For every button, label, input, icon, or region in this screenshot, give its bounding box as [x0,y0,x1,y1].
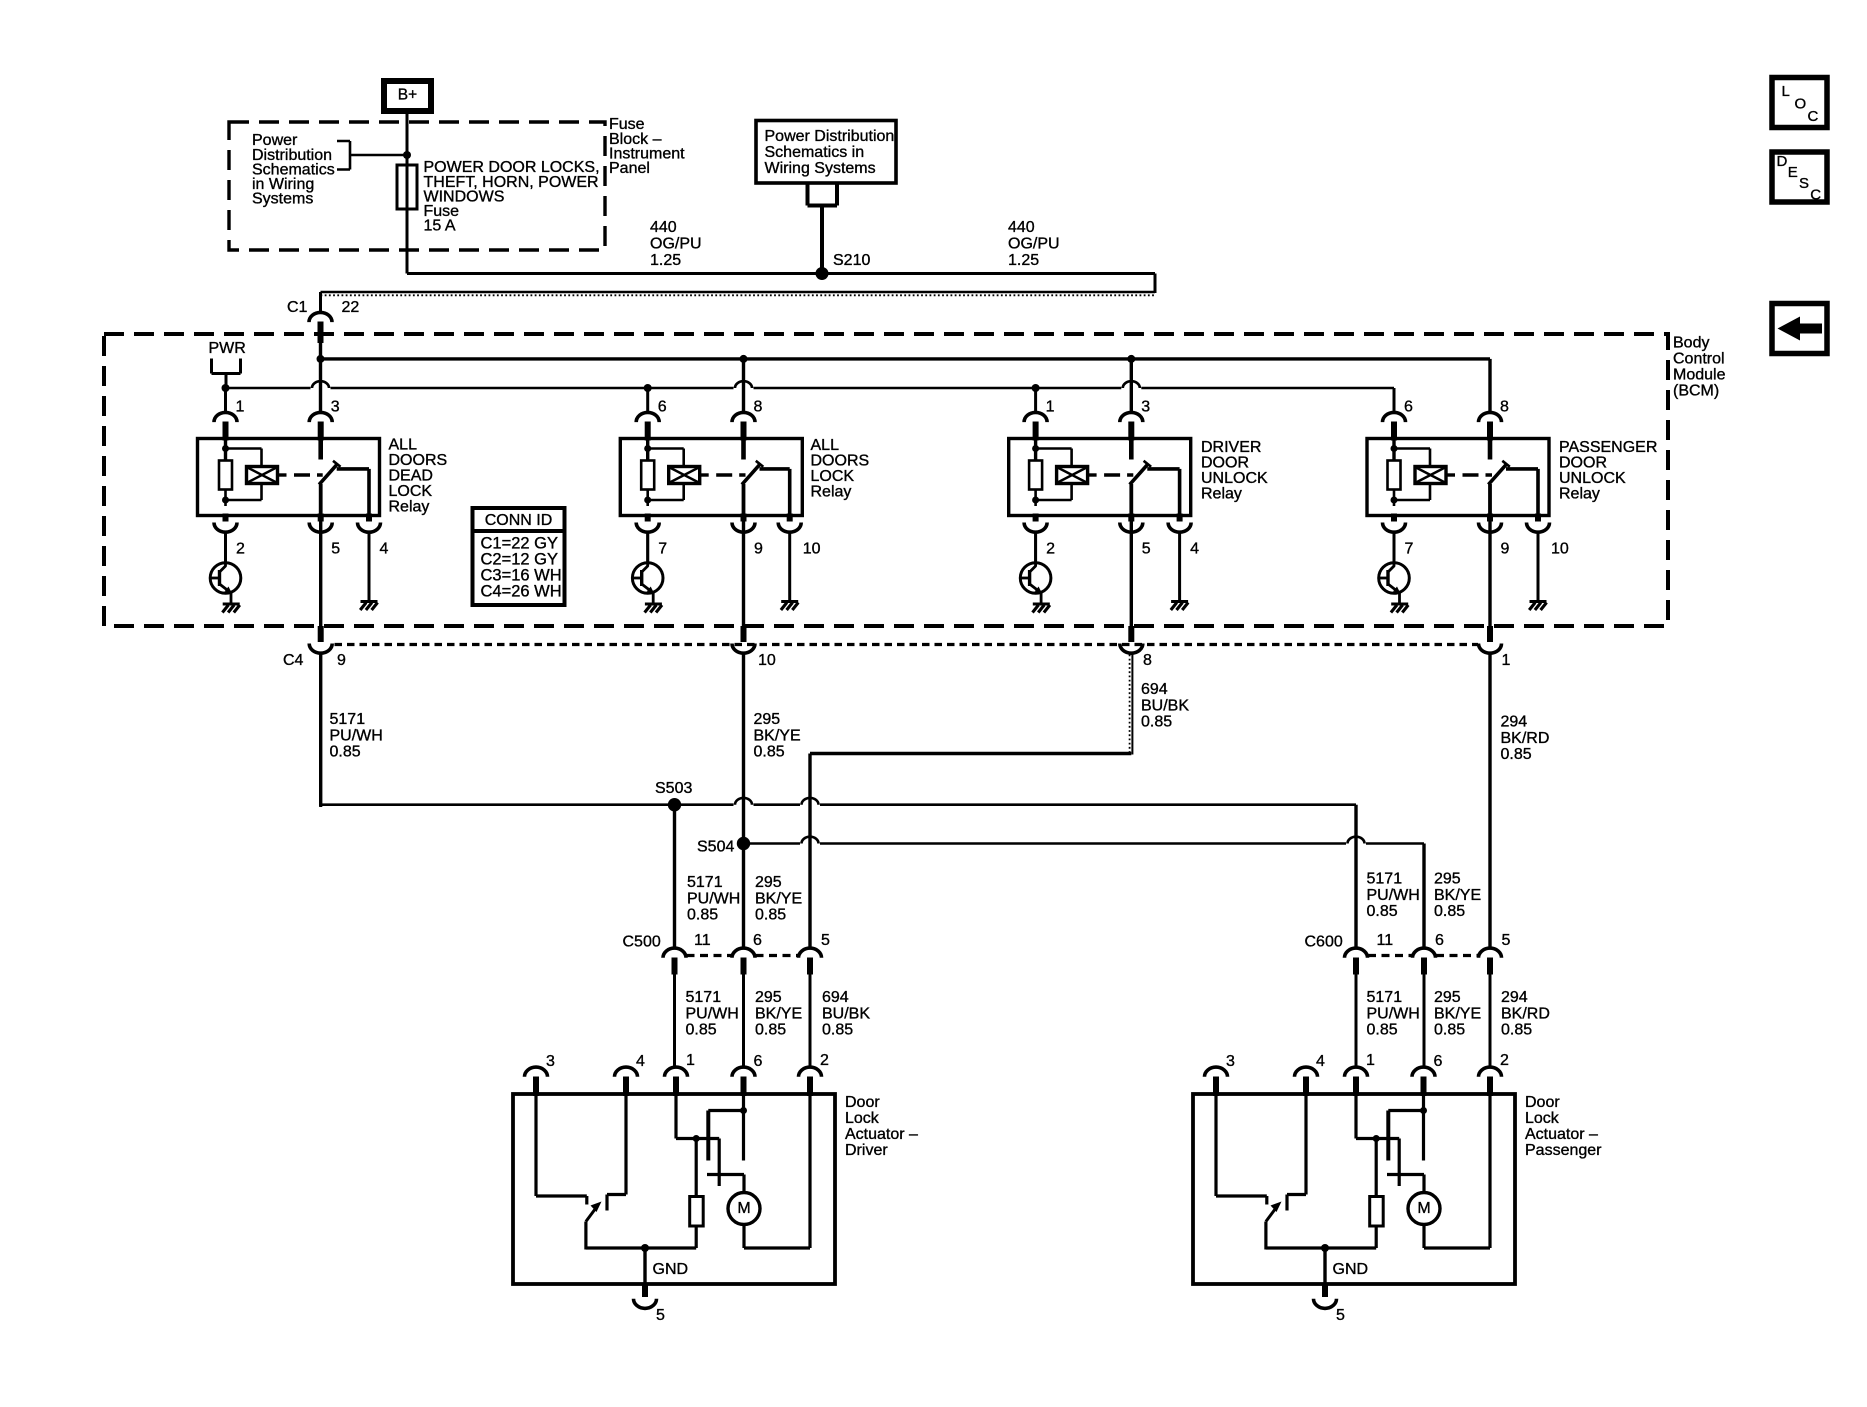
relay K3 DRIVER DOOR UNLOCK coil loop top wire [1036,447,1072,450]
resistor inside relay K3 DRIVER DOOR UNLOCK [1029,461,1042,490]
door lock actuator Passenger GND pin stub [1322,1284,1328,1297]
lower bus hop over relay3 pin3 wire [1123,381,1140,388]
relay K2 ALL DOORS LOCK pin 8 stub [741,422,747,441]
door lock actuator Driver switch blade with arrow [586,1202,602,1222]
relay K3 DRIVER DOOR UNLOCK bottom pin 4 connector [1168,523,1191,533]
relay K4 PASSENGER DOOR UNLOCK coil armature stub [1446,473,1455,476]
wire 440 OG/PU main run [407,272,1155,275]
relay K4 PASSENGER DOOR UNLOCK node coil top [1391,445,1398,452]
ground below Q3 [1033,604,1050,613]
door lock actuator Driver pin2 internal wire [808,1094,811,1248]
relay K4 PASSENGER DOOR UNLOCK bottom pin 9 connector [1479,523,1502,533]
door lock actuator Passenger pin4 contact arm [1287,1193,1306,1196]
svg-text:GND: GND [653,1261,689,1278]
back arrow navigation box [1772,304,1827,354]
relay K2 ALL DOORS LOCK bottom pin 10 connector [778,523,801,533]
relay K3 DRIVER DOOR UNLOCK contact output drop [1178,469,1182,516]
relay K1 ALL DOORS DEAD LOCK node coil bottom [222,497,229,504]
relay K4 PASSENGER DOOR UNLOCK coil loop right top wire [1429,449,1432,467]
door lock actuator Passenger resistor feed wire [1375,1139,1378,1197]
svg-text:11: 11 [694,932,711,949]
node lower bus / relay2 pin 6 tee [644,384,652,392]
wire relay NC pin to ground [788,533,791,602]
door lock actuator Passenger pin 6 connector [1412,1067,1435,1077]
S503 run hop over 694 wire [802,798,819,805]
ground (relay NC contact) [360,602,377,611]
svg-text:6: 6 [754,1053,763,1070]
wire 5171 PU/WH from C4-9 [319,655,322,807]
relay K2 ALL DOORS LOCK switch pole wire [742,484,746,516]
ground (relay NC contact) [1529,602,1546,611]
door lock actuator Passenger pin 4 connector [1295,1067,1318,1077]
svg-text:4: 4 [1190,541,1199,558]
relay K2 ALL DOORS LOCK switch blade [742,464,760,485]
relay K1 ALL DOORS DEAD LOCK bottom pin 2 connector [214,523,237,533]
svg-text:C1: C1 [287,299,308,316]
relay K4 PASSENGER DOOR UNLOCK top pin 8 connector [1479,412,1502,422]
node C1 wire / upper bus tee [317,355,325,363]
wire B+ feed down [406,114,409,274]
door lock actuator Passenger pin 1 connector [1345,1067,1368,1077]
relay K3 DRIVER DOOR UNLOCK coil armature stub [1088,473,1097,476]
door lock actuator Passenger motor contact bar [1387,1173,1424,1176]
wire relay to C4 pin 9 [319,516,322,627]
S503 run hop over 295 wire [735,798,752,805]
back arrow icon [1778,317,1823,341]
connector C4 pin 8 [1120,644,1143,654]
relay K3 DRIVER DOOR UNLOCK actuation dashed link [1104,473,1133,476]
S504 run hop over 694 wire [802,837,819,844]
lower bus hop over relay2 pin8 wire [735,381,752,388]
svg-text:22: 22 [342,299,360,316]
relay K4 PASSENGER DOOR UNLOCK node coil bottom [1391,497,1398,504]
relay K4 PASSENGER DOOR UNLOCK coil loop bottom wire [1394,499,1430,502]
C4 pin 1 stub [1487,626,1493,642]
relay K1 ALL DOORS DEAD LOCK pin 2 stub [223,514,229,522]
svg-text:3: 3 [1226,1053,1235,1070]
svg-text:8: 8 [1143,652,1152,669]
door lock actuator Driver pin6 internal wire [742,1094,745,1161]
relay K1 ALL DOORS DEAD LOCK resistor bottom wire [224,490,227,507]
relay K2 ALL DOORS LOCK node coil top [644,445,651,452]
relay K2 ALL DOORS LOCK pin 9 stub [741,514,747,522]
svg-text:M: M [1417,1200,1430,1217]
relay K2 ALL DOORS LOCK top pin 8 connector [732,412,755,422]
svg-text:9: 9 [337,652,346,669]
svg-text:3: 3 [1141,399,1150,416]
relay K2 ALL DOORS LOCK pin 6 stub [645,422,651,441]
relay K3 DRIVER DOOR UNLOCK pin 3 stub [1128,422,1134,441]
door lock actuator Driver pin 3 stub [533,1077,539,1097]
wire lower bus drop to relay4 pin 6 [1393,388,1396,412]
motor M inside door lock actuator Driver [728,1193,760,1225]
wire relay NC pin to ground [1178,533,1181,602]
motor M inside door lock actuator Passenger [1408,1193,1440,1225]
svg-text:S210: S210 [833,252,870,269]
svg-text:6: 6 [1404,399,1413,416]
fuse F (15 A) [397,165,417,209]
relay K4 PASSENGER DOOR UNLOCK contact output wire [1506,467,1538,471]
C500 pin 5 stub [807,958,813,975]
door lock actuator Passenger pin4 internal wire [1304,1094,1307,1195]
relay K4 PASSENGER DOOR UNLOCK coil loop top wire [1394,447,1430,450]
relay box relay K4 PASSENGER DOOR UNLOCK [1367,439,1549,516]
relay K1 ALL DOORS DEAD LOCK top pin 1 connector [214,412,237,422]
svg-text:5: 5 [656,1307,665,1324]
door lock actuator Passenger box [1193,1094,1515,1284]
relay K1 ALL DOORS DEAD LOCK coil armature stub [278,473,287,476]
door lock actuator Passenger lock prong [1386,1111,1390,1161]
transistor Q2 low-side driver [632,532,663,605]
door lock actuator Driver motor return wire [742,1225,745,1249]
wire 294 BK/RD from C4-1 [1488,655,1491,948]
door lock actuator Driver pin6 node [740,1107,747,1114]
door lock actuator Driver resistor bottom wire [695,1226,698,1248]
connector C600 pin 6 [1413,948,1436,958]
node upper bus / relay3 pin 3 tee [1127,355,1135,363]
relay K2 ALL DOORS LOCK coil loop right bottom wire [682,484,685,501]
door lock actuator Driver resistor feed wire [695,1139,698,1197]
door lock actuator Driver pin 3 connector [525,1067,548,1077]
door lock actuator Driver pin4 internal wire [624,1094,627,1195]
relay K2 ALL DOORS LOCK pin 10 stub [787,514,793,522]
battery feed B+ box [384,81,431,111]
wire lower bus drop to relay3 pin 1 [1034,388,1037,412]
door lock actuator Passenger ground node [1321,1244,1329,1252]
svg-text:1: 1 [1366,1052,1375,1069]
relay K3 DRIVER DOOR UNLOCK pin 4 stub [1177,514,1183,522]
door lock actuator Passenger motor return wire [1422,1225,1425,1249]
wire relay to C4 pin 10 [742,516,745,627]
C600 pin 6 stub [1421,958,1427,975]
wire below C600 pin 6 [1423,975,1426,1068]
svg-text:7: 7 [1405,541,1414,558]
node PWR / relay1 pin1 tee [222,384,230,392]
wire reference drop to S210 [820,206,824,274]
svg-text:4: 4 [636,1053,645,1070]
connector C500 pin 6 [732,948,755,958]
relay K4 PASSENGER DOOR UNLOCK bottom pin 7 connector [1383,523,1406,533]
svg-text:GND: GND [1333,1261,1369,1278]
C4 pin 8 stub [1128,626,1134,642]
relay K2 ALL DOORS LOCK top pin 6 connector [636,412,659,422]
door lock actuator Driver lock prong top wire [708,1109,743,1112]
door lock actuator Driver pin1 node [693,1135,700,1142]
C500 pin 11 stub [672,958,678,975]
svg-text:1: 1 [236,399,245,416]
relay K3 DRIVER DOOR UNLOCK switch blade [1130,464,1148,485]
coil (solenoid) of relay K2 ALL DOORS LOCK [669,467,700,484]
wire 440 corner drop [1154,274,1157,294]
wire PWR to bus [225,374,228,389]
relay K4 PASSENGER DOOR UNLOCK switch pole wire [1488,484,1492,516]
wire 440 dotted return to C1 [321,291,1156,293]
relay K2 ALL DOORS LOCK bottom pin 7 connector [636,523,659,533]
relay K1 ALL DOORS DEAD LOCK switch contact tick [333,461,341,467]
svg-text:2: 2 [1500,1052,1509,1069]
relay K3 DRIVER DOOR UNLOCK node coil top [1032,445,1039,452]
door lock actuator Passenger pin3 contact arm [1216,1194,1267,1197]
relay K4 PASSENGER DOOR UNLOCK actuation dashed link [1463,473,1493,476]
relay K4 PASSENGER DOOR UNLOCK switch common wire [1488,439,1493,460]
relay K1 ALL DOORS DEAD LOCK pin 1 stub [223,422,229,441]
door lock actuator Driver motor return rail [744,1246,810,1249]
splice S210 [816,267,829,280]
svg-text:C1=22 GYC2=12 GYC3=16 WHC4=26: C1=22 GYC2=12 GYC3=16 WHC4=26 WH [481,535,562,601]
coil (solenoid) of relay K4 PASSENGER DOOR UNLOCK [1415,467,1446,484]
door lock actuator Passenger right fixed contact [1285,1195,1288,1211]
node fuse tap [403,151,411,159]
door lock actuator Passenger pin1 branch wire [1356,1137,1376,1140]
svg-text:6: 6 [658,399,667,416]
relay K4 PASSENGER DOOR UNLOCK top pin 6 connector [1383,412,1406,422]
relay K1 ALL DOORS DEAD LOCK pin 4 stub [366,514,372,522]
wire to relay1 pin 1 [224,388,227,412]
wire upper bus drop to relay4 pin 8 [1488,359,1491,412]
svg-text:10: 10 [803,541,821,558]
wire below C600 pin 11 [1355,975,1358,1068]
wire C1-22 to relay pin 3 [319,343,322,412]
svg-text:6: 6 [1435,932,1444,949]
connector C4 harness dashed line [335,643,1479,646]
door lock actuator Passenger motor return rail [1424,1246,1490,1249]
relay K2 ALL DOORS LOCK switch common wire [741,439,746,460]
relay K4 PASSENGER DOOR UNLOCK pin 9 stub [1487,514,1493,522]
door lock actuator Passenger pin 3 stub [1213,1077,1219,1097]
svg-text:11: 11 [1377,932,1394,949]
door lock actuator Driver pin 4 connector [615,1067,638,1077]
relay K4 PASSENGER DOOR UNLOCK switch contact tick [1502,461,1510,467]
connector C4 pin 1 [1479,644,1502,654]
C600 pin 5 stub [1487,958,1493,975]
connector C4 pin 9 [309,644,332,654]
relay K1 ALL DOORS DEAD LOCK coil loop right top wire [260,449,263,467]
power distribution schematics reference box [756,121,896,184]
svg-text:6: 6 [753,932,762,949]
relay K3 DRIVER DOOR UNLOCK bottom pin 2 connector [1024,523,1047,533]
svg-text:3: 3 [331,399,340,416]
svg-text:M: M [737,1200,750,1217]
door lock actuator Driver sense prong [718,1139,721,1187]
relay K4 PASSENGER DOOR UNLOCK bottom pin 10 connector [1527,523,1550,533]
fuse block dashed outline (Fuse Block - Instrument Panel) [229,122,605,250]
splice S503 [668,798,681,811]
door lock actuator Driver pin 6 connector [732,1067,755,1077]
door lock actuator Driver pin1 branch wire [676,1137,696,1140]
door lock actuator Passenger pin 1 stub [1353,1077,1359,1097]
svg-text:9: 9 [754,541,763,558]
relay K3 DRIVER DOOR UNLOCK node coil bottom [1032,497,1039,504]
C4 pin 9 stub [318,626,324,642]
C1 pin 22 stub [318,322,324,344]
door lock actuator Driver GND pin stub [642,1284,648,1297]
svg-text:C: C [1810,186,1821,203]
relay K4 PASSENGER DOOR UNLOCK contact output drop [1536,469,1540,516]
door lock actuator Driver pin 1 stub [673,1077,679,1097]
svg-text:C: C [1808,108,1819,125]
svg-text:E: E [1788,164,1798,181]
relay K3 DRIVER DOOR UNLOCK coil loop bottom wire [1036,499,1072,502]
relay K1 ALL DOORS DEAD LOCK switch pole wire [319,484,323,516]
relay K1 ALL DOORS DEAD LOCK top pin 3 connector [309,412,332,422]
connector C600 harness dashed line [1368,954,1412,957]
svg-text:8: 8 [754,399,763,416]
wire into C1 pin 22 [319,292,322,312]
relay K2 ALL DOORS LOCK switch contact tick [756,461,764,467]
C4 pin 10 stub [741,626,747,642]
svg-text:6: 6 [1434,1053,1443,1070]
relay box relay K1 ALL DOORS DEAD LOCK [198,439,380,516]
door lock actuator Driver pin 6 stub [741,1077,747,1097]
relay K1 ALL DOORS DEAD LOCK switch blade [319,464,337,485]
wire upper bus drop to relay3 pin 3 [1130,359,1133,412]
DESC navigation box [1772,152,1827,202]
door lock actuator Passenger lock prong top wire [1388,1109,1423,1112]
wire 295 BK/YE from C4-10 [742,655,745,948]
door lock actuator Passenger pin2 internal wire [1488,1094,1491,1248]
door lock actuator Driver right fixed contact [605,1195,608,1211]
relay K4 PASSENGER DOOR UNLOCK switch blade [1488,464,1506,485]
door lock actuator Driver ground drop wire [643,1248,646,1284]
door lock actuator Passenger pin6 internal wire [1422,1094,1425,1161]
svg-text:S503: S503 [655,780,692,797]
relay K1 ALL DOORS DEAD LOCK switch common wire [318,439,323,460]
door lock actuator Passenger pin1 node [1373,1135,1380,1142]
door lock actuator Driver motor contact bar [707,1173,744,1176]
relay K3 DRIVER DOOR UNLOCK bottom pin 5 connector [1120,523,1143,533]
relay box relay K2 ALL DOORS LOCK [620,439,802,516]
relay K3 DRIVER DOOR UNLOCK coil feed wire [1034,439,1037,461]
wire splice run S503 (5171) with hops [321,803,1356,806]
transistor Q1 low-side driver [210,532,241,605]
lower bus hop over C1 wire [312,381,329,388]
wire relay pin to transistor Q4 [1393,533,1396,563]
door lock actuator Driver ground node [641,1244,649,1252]
relay K4 PASSENGER DOOR UNLOCK pin 6 stub [1391,422,1397,441]
door lock actuator Driver ground rail wire [586,1246,696,1249]
relay K4 PASSENGER DOOR UNLOCK pin 7 stub [1391,514,1397,522]
door lock actuator Passenger pin3 internal wire [1214,1094,1217,1196]
door lock actuator Driver lock prong [706,1111,710,1161]
relay K1 ALL DOORS DEAD LOCK pin 5 stub [318,514,324,522]
door lock actuator Passenger left fixed contact [1265,1196,1268,1205]
door lock actuator Driver pin 2 stub [807,1077,813,1097]
svg-text:C600: C600 [1305,934,1343,951]
relay K1 ALL DOORS DEAD LOCK actuation dashed link [294,473,323,476]
door lock actuator Passenger sense prong [1398,1139,1401,1187]
ground below Q2 [645,604,662,613]
door lock actuator Passenger pin 2 stub [1487,1077,1493,1097]
wire lower bus drop to relay2 pin 6 [646,388,649,412]
relay K3 DRIVER DOOR UNLOCK pin 1 stub [1033,422,1039,441]
wire relay to C4 pin 1 [1488,516,1491,627]
svg-text:B+: B+ [398,86,417,103]
reference bracket below box [808,184,838,206]
connector C1 pin 22 [309,312,332,322]
relay K3 DRIVER DOOR UNLOCK switch common wire [1129,439,1134,460]
wire relay to C4 pin 8 [1130,516,1133,627]
lower bus wire (PWR feed) with hops [226,387,1395,390]
svg-text:2: 2 [820,1052,829,1069]
svg-text:C4: C4 [283,652,304,669]
relay K1 ALL DOORS DEAD LOCK coil loop right bottom wire [260,484,263,501]
connector C600 pin 5 [1479,948,1502,958]
relay K1 ALL DOORS DEAD LOCK coil feed wire [224,439,227,461]
connector C500 pin 5 [799,948,822,958]
svg-text:1: 1 [686,1052,695,1069]
relay K2 ALL DOORS LOCK coil loop right top wire [682,449,685,467]
svg-text:5: 5 [821,932,830,949]
wire S503 drop to C500-11 [673,805,676,948]
relay K4 PASSENGER DOOR UNLOCK coil feed wire [1392,439,1395,461]
Body Control Module dashed box (BCM) [104,334,1668,626]
relay K1 ALL DOORS DEAD LOCK bottom pin 5 connector [309,523,332,533]
wire relay NC pin to ground [368,533,371,602]
door lock actuator Passenger resistor bottom wire [1375,1226,1378,1248]
svg-text:4: 4 [1316,1053,1325,1070]
PWR bracket [212,359,241,374]
relay K1 ALL DOORS DEAD LOCK contact output wire [337,467,369,471]
svg-text:5: 5 [331,541,340,558]
ground below Q1 [222,604,239,613]
door lock actuator Driver pin 2 connector [799,1067,822,1077]
svg-text:S504: S504 [697,839,734,856]
relay K3 DRIVER DOOR UNLOCK coil loop right bottom wire [1070,484,1073,501]
door lock actuator Driver GND pin 5 connector [634,1299,657,1309]
wire 295 drop to C600-6 [1422,844,1425,948]
relay K2 ALL DOORS LOCK actuation dashed link [716,473,745,476]
wire upper bus drop to relay2 pin 8 [742,359,745,412]
relay K2 ALL DOORS LOCK pin 7 stub [645,514,651,522]
relay K2 ALL DOORS LOCK bottom pin 9 connector [732,523,755,533]
coil (solenoid) of relay K3 DRIVER DOOR UNLOCK [1057,467,1088,484]
resistor inside relay K1 ALL DOORS DEAD LOCK [219,461,232,490]
resistor inside door lock actuator Passenger [1370,1197,1384,1227]
door lock actuator Passenger pin 2 connector [1479,1067,1502,1077]
svg-text:D: D [1777,153,1788,170]
door lock actuator Passenger pin6 node [1420,1107,1427,1114]
wire below C500 pin 11 [673,975,676,1068]
wire relay NC pin to ground [1537,533,1540,602]
relay K1 ALL DOORS DEAD LOCK coil loop top wire [226,447,262,450]
svg-text:4: 4 [380,541,389,558]
relay K3 DRIVER DOOR UNLOCK contact output wire [1147,467,1179,471]
relay K1 ALL DOORS DEAD LOCK contact output drop [367,469,371,516]
door lock actuator Driver pin 1 connector [665,1067,688,1077]
svg-text:O: O [1795,95,1807,112]
door lock actuator Passenger pin 4 stub [1303,1077,1309,1097]
wire below C500 pin 6 [742,975,745,1068]
door lock actuator Passenger GND pin 5 connector [1314,1299,1337,1309]
wire 694 elbow run left [810,752,1131,755]
svg-text:9: 9 [1501,541,1510,558]
ground (relay NC contact) [1171,602,1188,611]
relay K3 DRIVER DOOR UNLOCK switch pole wire [1129,484,1133,516]
connector C500 harness dashed line [687,954,732,957]
door lock actuator Driver box [513,1094,835,1284]
relay K4 PASSENGER DOOR UNLOCK pin 8 stub [1487,422,1493,441]
wire below C500 pin 5 [809,975,812,1068]
reference bracket to fuse [337,141,407,170]
relay K3 DRIVER DOOR UNLOCK top pin 3 connector [1120,412,1143,422]
door lock actuator Passenger sense prong top wire [1376,1137,1399,1140]
relay K1 ALL DOORS DEAD LOCK bottom pin 4 connector [358,523,381,533]
door lock actuator Passenger pin 3 connector [1205,1067,1228,1077]
wire 694 BU/BK dotted from C4-8 [1131,655,1133,755]
connector C600 pin 11 [1345,948,1368,958]
svg-text:1: 1 [1046,399,1055,416]
svg-text:10: 10 [1551,541,1569,558]
